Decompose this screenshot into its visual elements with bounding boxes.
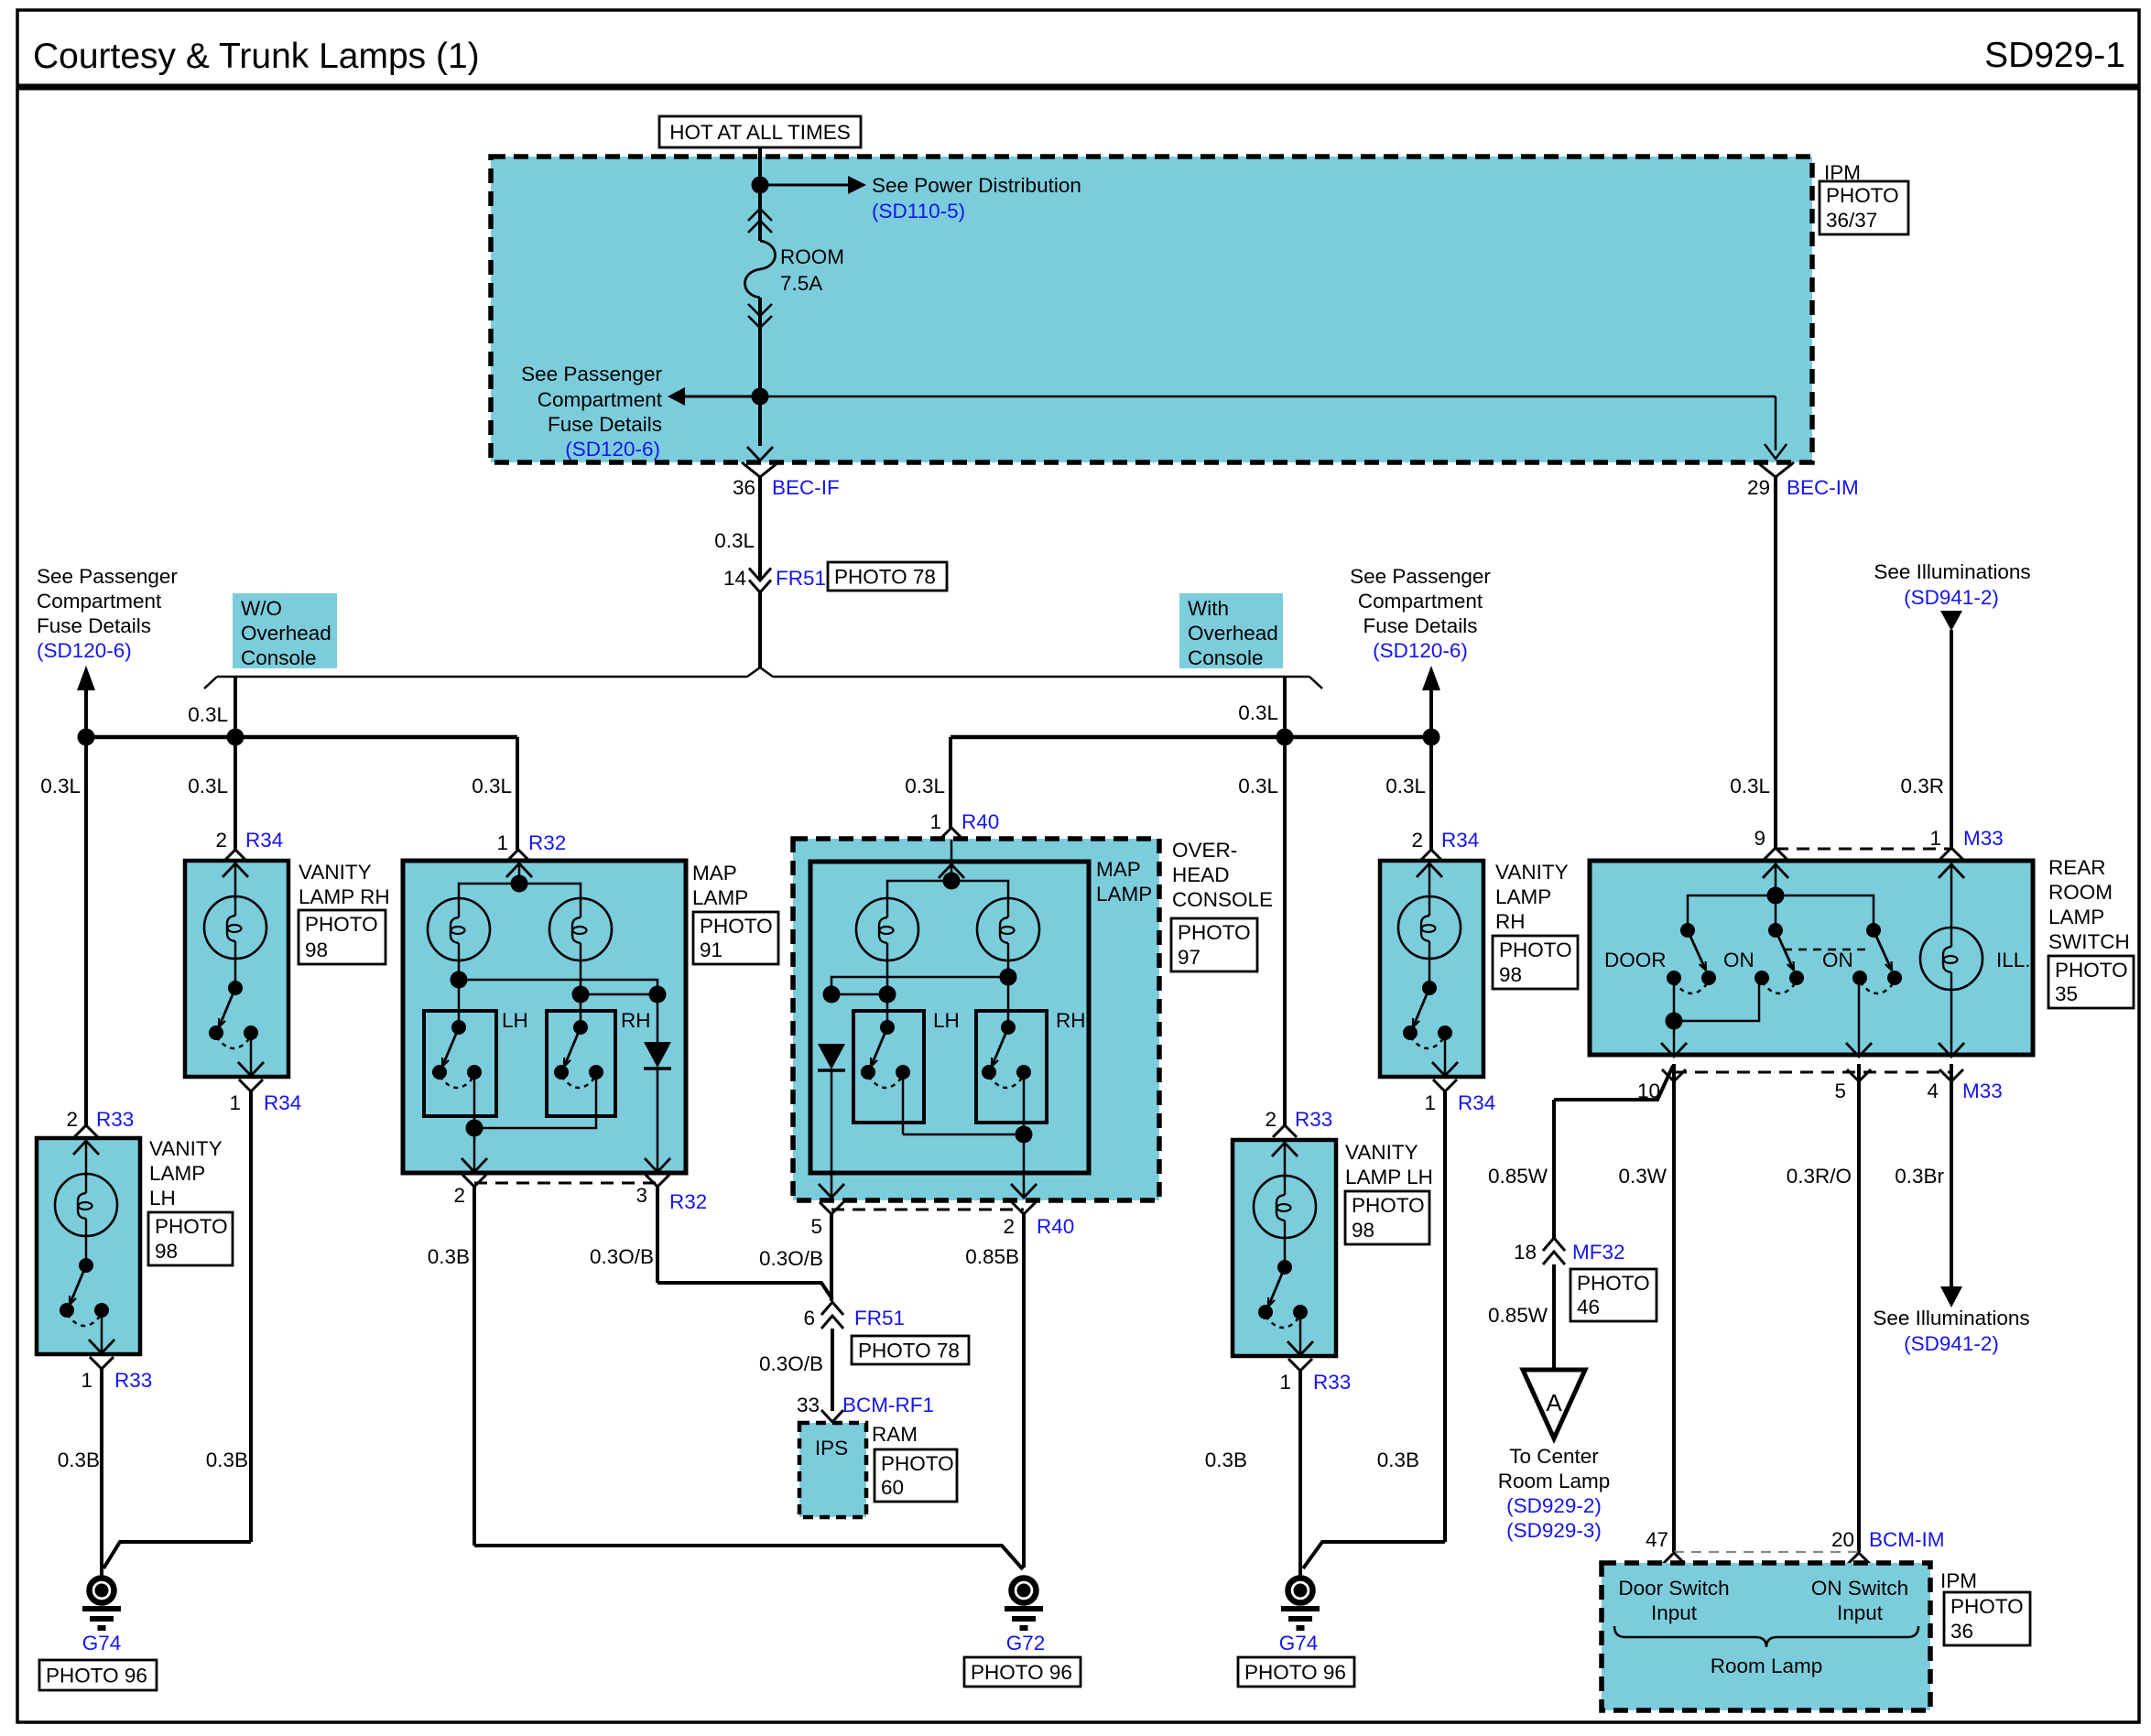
svg-text:2: 2 bbox=[453, 1184, 465, 1207]
svg-text:0.3R/O: 0.3R/O bbox=[1787, 1165, 1852, 1188]
svg-text:Input: Input bbox=[1837, 1601, 1884, 1624]
svg-text:Courtesy & Trunk Lamps (1): Courtesy & Trunk Lamps (1) bbox=[33, 37, 480, 76]
svg-text:98: 98 bbox=[1352, 1219, 1374, 1242]
svg-text:4: 4 bbox=[1927, 1080, 1939, 1102]
svg-text:9: 9 bbox=[1754, 827, 1765, 850]
svg-text:(SD120-6): (SD120-6) bbox=[37, 639, 132, 662]
svg-text:(SD929-2): (SD929-2) bbox=[1506, 1494, 1602, 1517]
svg-text:PHOTO: PHOTO bbox=[881, 1452, 954, 1475]
svg-text:MAP: MAP bbox=[692, 862, 737, 884]
svg-text:RAM: RAM bbox=[872, 1423, 918, 1446]
svg-text:2: 2 bbox=[215, 829, 227, 852]
svg-text:Room Lamp: Room Lamp bbox=[1711, 1655, 1823, 1677]
svg-text:0.3B: 0.3B bbox=[206, 1448, 248, 1471]
svg-text:98: 98 bbox=[155, 1240, 178, 1263]
svg-text:IPM: IPM bbox=[1940, 1569, 1977, 1592]
svg-text:14: 14 bbox=[723, 567, 746, 590]
svg-text:0.85B: 0.85B bbox=[965, 1245, 1019, 1268]
svg-text:See Passenger: See Passenger bbox=[37, 565, 178, 588]
svg-text:LAMP: LAMP bbox=[1096, 883, 1152, 906]
svg-text:See Illuminations: See Illuminations bbox=[1874, 560, 2030, 583]
svg-text:G74: G74 bbox=[82, 1632, 122, 1655]
svg-text:0.3O/B: 0.3O/B bbox=[759, 1247, 823, 1270]
svg-text:1: 1 bbox=[1279, 1371, 1291, 1394]
svg-text:RH: RH bbox=[621, 1009, 651, 1032]
svg-text:91: 91 bbox=[700, 939, 722, 961]
svg-text:R33: R33 bbox=[1313, 1371, 1351, 1394]
svg-text:98: 98 bbox=[1499, 963, 1522, 986]
svg-text:VANITY: VANITY bbox=[299, 861, 372, 884]
svg-text:1: 1 bbox=[1424, 1091, 1436, 1114]
svg-text:A: A bbox=[1546, 1389, 1562, 1416]
svg-text:LAMP LH: LAMP LH bbox=[1345, 1166, 1433, 1188]
svg-text:ILL.: ILL. bbox=[1996, 949, 2031, 971]
svg-text:CONSOLE: CONSOLE bbox=[1172, 888, 1273, 911]
svg-text:3: 3 bbox=[636, 1184, 647, 1207]
svg-text:ON Switch: ON Switch bbox=[1811, 1577, 1908, 1600]
svg-text:PHOTO: PHOTO bbox=[1499, 939, 1572, 961]
svg-text:LH: LH bbox=[933, 1009, 960, 1032]
svg-text:LH: LH bbox=[149, 1187, 176, 1210]
svg-text:With: With bbox=[1188, 597, 1229, 620]
svg-text:33: 33 bbox=[797, 1394, 820, 1416]
svg-text:0.3L: 0.3L bbox=[188, 703, 228, 726]
svg-text:2: 2 bbox=[1003, 1215, 1015, 1238]
svg-text:0.85W: 0.85W bbox=[1488, 1165, 1548, 1188]
svg-text:Fuse Details: Fuse Details bbox=[37, 614, 151, 637]
svg-text:2: 2 bbox=[1411, 829, 1423, 852]
svg-text:0.3O/B: 0.3O/B bbox=[590, 1245, 654, 1268]
svg-text:6: 6 bbox=[803, 1307, 815, 1329]
svg-text:1: 1 bbox=[1929, 827, 1941, 850]
svg-text:MAP: MAP bbox=[1096, 858, 1141, 881]
svg-text:0.3L: 0.3L bbox=[714, 529, 755, 552]
svg-text:0.3B: 0.3B bbox=[1205, 1448, 1247, 1471]
svg-text:47: 47 bbox=[1646, 1528, 1668, 1551]
svg-text:Fuse Details: Fuse Details bbox=[548, 413, 662, 436]
svg-text:Room Lamp: Room Lamp bbox=[1498, 1470, 1611, 1492]
svg-text:Compartment: Compartment bbox=[1358, 590, 1483, 613]
svg-text:1: 1 bbox=[496, 831, 508, 854]
svg-text:W/O: W/O bbox=[241, 597, 282, 620]
svg-text:Fuse Details: Fuse Details bbox=[1363, 614, 1477, 637]
svg-text:0.3R: 0.3R bbox=[1900, 775, 1944, 797]
svg-text:ROOM: ROOM bbox=[780, 245, 844, 268]
svg-text:R34: R34 bbox=[1458, 1091, 1495, 1114]
svg-text:R33: R33 bbox=[96, 1108, 134, 1131]
svg-text:R32: R32 bbox=[528, 831, 566, 854]
svg-text:PHOTO 96: PHOTO 96 bbox=[46, 1665, 147, 1687]
svg-text:Overhead: Overhead bbox=[1188, 622, 1278, 645]
svg-text:BEC-IM: BEC-IM bbox=[1787, 476, 1859, 499]
svg-text:Door Switch: Door Switch bbox=[1618, 1577, 1729, 1600]
svg-text:Overhead: Overhead bbox=[241, 622, 331, 645]
svg-text:ON: ON bbox=[1723, 949, 1754, 971]
svg-text:RH: RH bbox=[1495, 910, 1526, 933]
svg-text:20: 20 bbox=[1831, 1528, 1854, 1551]
svg-text:Compartment: Compartment bbox=[37, 590, 162, 613]
svg-text:0.3O/B: 0.3O/B bbox=[759, 1352, 823, 1375]
svg-text:18: 18 bbox=[1514, 1241, 1537, 1264]
svg-text:BEC-IF: BEC-IF bbox=[772, 476, 840, 499]
svg-text:PHOTO: PHOTO bbox=[1352, 1194, 1425, 1217]
svg-text:R34: R34 bbox=[245, 829, 283, 852]
svg-text:2: 2 bbox=[1265, 1108, 1276, 1131]
svg-text:PHOTO: PHOTO bbox=[700, 915, 773, 938]
svg-text:98: 98 bbox=[305, 939, 328, 961]
svg-text:SD929-1: SD929-1 bbox=[1984, 36, 2125, 75]
svg-text:R33: R33 bbox=[1295, 1108, 1332, 1131]
svg-text:BCM-IM: BCM-IM bbox=[1869, 1528, 1945, 1551]
svg-text:(SD120-6): (SD120-6) bbox=[1373, 639, 1468, 662]
svg-text:(SD110-5): (SD110-5) bbox=[872, 200, 965, 222]
svg-text:PHOTO: PHOTO bbox=[1178, 921, 1251, 944]
svg-text:(SD941-2): (SD941-2) bbox=[1904, 586, 1999, 609]
svg-text:SWITCH: SWITCH bbox=[2048, 930, 2130, 953]
svg-text:R40: R40 bbox=[1037, 1215, 1074, 1238]
svg-text:PHOTO: PHOTO bbox=[2055, 959, 2128, 982]
svg-text:0.3W: 0.3W bbox=[1618, 1165, 1667, 1188]
svg-text:PHOTO: PHOTO bbox=[1577, 1272, 1650, 1295]
svg-text:7.5A: 7.5A bbox=[780, 272, 822, 295]
svg-text:0.3L: 0.3L bbox=[1238, 775, 1278, 797]
svg-text:29: 29 bbox=[1747, 476, 1770, 499]
svg-text:R40: R40 bbox=[961, 810, 999, 833]
svg-text:DOOR: DOOR bbox=[1604, 949, 1667, 971]
svg-text:Console: Console bbox=[1188, 646, 1264, 669]
svg-text:PHOTO: PHOTO bbox=[1826, 184, 1899, 207]
svg-text:PHOTO: PHOTO bbox=[155, 1215, 228, 1238]
svg-text:5: 5 bbox=[810, 1215, 822, 1238]
svg-text:0.3Br: 0.3Br bbox=[1895, 1165, 1944, 1188]
svg-text:36/37: 36/37 bbox=[1826, 209, 1877, 232]
svg-text:VANITY: VANITY bbox=[1345, 1141, 1418, 1164]
svg-text:0.3L: 0.3L bbox=[188, 775, 228, 797]
svg-text:0.3L: 0.3L bbox=[1385, 775, 1426, 797]
svg-text:(SD941-2): (SD941-2) bbox=[1904, 1332, 1999, 1355]
svg-text:R34: R34 bbox=[264, 1091, 301, 1114]
svg-text:LAMP: LAMP bbox=[149, 1162, 205, 1185]
svg-text:VANITY: VANITY bbox=[1495, 861, 1569, 884]
svg-text:1: 1 bbox=[229, 1091, 241, 1114]
svg-text:R32: R32 bbox=[669, 1190, 707, 1213]
svg-text:2: 2 bbox=[66, 1108, 78, 1131]
svg-text:46: 46 bbox=[1577, 1296, 1600, 1318]
svg-text:HOT AT ALL TIMES: HOT AT ALL TIMES bbox=[669, 121, 851, 144]
svg-text:R34: R34 bbox=[1441, 829, 1479, 852]
svg-text:See Passenger: See Passenger bbox=[1350, 565, 1491, 588]
svg-text:BCM-RF1: BCM-RF1 bbox=[842, 1394, 934, 1416]
svg-text:5: 5 bbox=[1834, 1080, 1846, 1102]
svg-text:PHOTO 78: PHOTO 78 bbox=[834, 566, 936, 589]
svg-text:FR51: FR51 bbox=[854, 1307, 905, 1329]
svg-text:1: 1 bbox=[81, 1369, 92, 1392]
svg-text:LAMP: LAMP bbox=[2048, 906, 2104, 928]
svg-text:97: 97 bbox=[1178, 946, 1200, 969]
svg-text:FR51: FR51 bbox=[776, 567, 826, 590]
svg-text:G72: G72 bbox=[1006, 1632, 1046, 1655]
svg-text:PHOTO 78: PHOTO 78 bbox=[858, 1340, 960, 1362]
svg-text:0.3B: 0.3B bbox=[428, 1245, 470, 1268]
svg-text:See Passenger: See Passenger bbox=[521, 363, 662, 385]
svg-text:0.3B: 0.3B bbox=[1377, 1448, 1419, 1471]
svg-text:LH: LH bbox=[502, 1009, 528, 1032]
svg-text:PHOTO: PHOTO bbox=[1950, 1595, 2024, 1618]
svg-text:0.3L: 0.3L bbox=[40, 775, 81, 797]
svg-text:35: 35 bbox=[2055, 982, 2078, 1005]
svg-text:PHOTO: PHOTO bbox=[305, 913, 378, 936]
svg-text:HEAD: HEAD bbox=[1172, 863, 1230, 886]
svg-text:IPS: IPS bbox=[815, 1437, 848, 1459]
svg-text:REAR: REAR bbox=[2048, 856, 2106, 879]
svg-text:Input: Input bbox=[1651, 1601, 1698, 1624]
svg-text:See Illuminations: See Illuminations bbox=[1873, 1307, 2029, 1329]
svg-text:LAMP RH: LAMP RH bbox=[299, 885, 390, 908]
svg-text:1: 1 bbox=[929, 810, 941, 833]
svg-text:(SD120-6): (SD120-6) bbox=[565, 438, 660, 461]
svg-text:(SD929-3): (SD929-3) bbox=[1506, 1519, 1602, 1542]
svg-text:0.3L: 0.3L bbox=[472, 775, 512, 797]
svg-text:R33: R33 bbox=[114, 1369, 152, 1392]
svg-text:To Center: To Center bbox=[1509, 1445, 1599, 1468]
svg-text:VANITY: VANITY bbox=[149, 1137, 223, 1160]
svg-text:PHOTO 96: PHOTO 96 bbox=[1244, 1661, 1346, 1684]
svg-text:RH: RH bbox=[1056, 1009, 1086, 1032]
svg-text:LAMP: LAMP bbox=[692, 886, 748, 909]
svg-text:See Power Distribution: See Power Distribution bbox=[872, 174, 1081, 197]
svg-text:Compartment: Compartment bbox=[538, 388, 663, 411]
svg-text:0.3B: 0.3B bbox=[58, 1448, 100, 1471]
svg-text:0.85W: 0.85W bbox=[1488, 1304, 1548, 1327]
svg-text:36: 36 bbox=[733, 476, 755, 499]
svg-text:G74: G74 bbox=[1279, 1632, 1319, 1655]
svg-text:ROOM: ROOM bbox=[2048, 881, 2113, 904]
svg-text:M33: M33 bbox=[1963, 827, 2004, 850]
svg-text:0.3L: 0.3L bbox=[1238, 701, 1278, 724]
svg-text:LAMP: LAMP bbox=[1495, 885, 1551, 908]
svg-text:0.3L: 0.3L bbox=[1730, 775, 1770, 797]
svg-text:60: 60 bbox=[881, 1476, 904, 1499]
svg-text:36: 36 bbox=[1950, 1620, 1973, 1643]
svg-text:M33: M33 bbox=[1962, 1080, 2003, 1102]
svg-text:PHOTO 96: PHOTO 96 bbox=[971, 1661, 1072, 1684]
svg-text:0.3L: 0.3L bbox=[905, 775, 945, 797]
svg-text:MF32: MF32 bbox=[1572, 1241, 1625, 1264]
svg-text:Console: Console bbox=[241, 646, 317, 669]
svg-text:ON: ON bbox=[1822, 949, 1853, 971]
svg-text:OVER-: OVER- bbox=[1172, 839, 1237, 862]
